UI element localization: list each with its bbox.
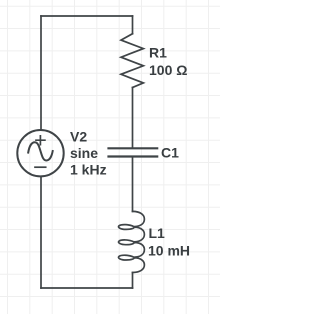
- inductor L1 lead bottom: [132, 273, 134, 288]
- capacitor C1 bottom plate: [109, 155, 158, 157]
- svg-text:sine: sine: [70, 145, 98, 161]
- svg-text:1 kHz: 1 kHz: [70, 162, 107, 178]
- svg-text:L1: L1: [149, 225, 166, 241]
- resistor R1 lead bottom / wire to C1: [132, 88, 134, 148]
- capacitor C1 top plate: [109, 147, 158, 149]
- wire top: [41, 15, 133, 17]
- V2 plus sign: [36, 136, 45, 145]
- svg-text:100 Ω: 100 Ω: [149, 62, 187, 78]
- resistor R1 lead top: [132, 16, 134, 34]
- svg-text:10 mH: 10 mH: [148, 243, 190, 259]
- svg-text:C1: C1: [161, 145, 179, 161]
- resistor R1 zigzag: [121, 34, 143, 88]
- voltage source V2: [17, 130, 63, 176]
- V2 sine symbol: [28, 142, 53, 160]
- wire left lower: [40, 176, 42, 288]
- wire C1 to L1: [132, 158, 134, 212]
- wire bottom: [41, 287, 133, 289]
- svg-text:R1: R1: [149, 44, 167, 60]
- V2 minus sign: [35, 166, 46, 168]
- wire left upper: [40, 16, 42, 130]
- inductor L1 coil: [119, 211, 145, 272]
- svg-text:V2: V2: [70, 129, 87, 145]
